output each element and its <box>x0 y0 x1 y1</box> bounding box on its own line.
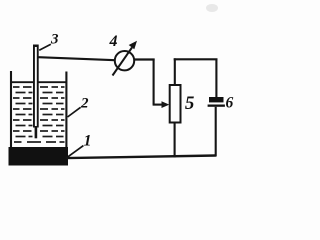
svg-text:1: 1 <box>84 132 92 149</box>
svg-text:4: 4 <box>109 33 118 50</box>
svg-text:5: 5 <box>185 93 195 114</box>
svg-text:2: 2 <box>80 96 89 112</box>
svg-text:6: 6 <box>226 95 234 112</box>
svg-text:3: 3 <box>50 32 59 48</box>
